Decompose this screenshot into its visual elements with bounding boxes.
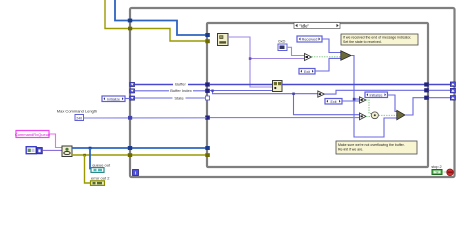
wire to error out indicator [85, 155, 91, 183]
select function U3 [341, 51, 351, 60]
wire stop to conditional terminal [442, 171, 447, 173]
wire state output [405, 98, 426, 115]
shift register right state [450, 96, 455, 101]
replace array subset U5 [273, 81, 283, 92]
wire queue refnum [42, 149, 62, 151]
iteration terminal [133, 170, 139, 176]
svg-text:Initialize: Initialize [107, 97, 120, 101]
label queue out [92, 163, 111, 168]
comment box 2 [336, 141, 417, 154]
svg-text:CommandRxQueue: CommandRxQueue [15, 132, 51, 137]
enum constant Exit (lower) [325, 99, 342, 105]
or gate U8 [371, 112, 378, 119]
enum constant Exit (top) [299, 69, 315, 75]
tunnel error case border bottom [205, 153, 210, 157]
constant 0xD [278, 38, 305, 55]
svg-text:Exit: Exit [304, 70, 310, 74]
wire boolean to or [366, 115, 372, 117]
tunnel buffer case right [424, 82, 429, 86]
svg-text:Max Command Length: Max Command Length [57, 109, 97, 114]
svg-text:0xD: 0xD [278, 38, 285, 43]
shift register left buffer [130, 82, 135, 86]
svg-text:TF: TF [435, 170, 439, 174]
shift register right buffer index [450, 88, 455, 93]
conditional terminal stop sign [447, 169, 454, 176]
tunnel max command length loop border [128, 116, 132, 120]
comparison GreaterOrEqual? U7 [360, 113, 367, 120]
tunnel max command length case left [205, 116, 210, 120]
case selector label [294, 23, 340, 29]
svg-text:Make sure we're not overflowin: Make sure we're not overflowing the buff… [338, 143, 405, 147]
wire dequeued element (string) [228, 37, 305, 87]
dequeue element VI U1 [218, 34, 229, 46]
shift register left buffer index [130, 89, 135, 93]
shift register right buffer [450, 82, 455, 87]
wire queue from top [115, 0, 207, 35]
tunnel queue on case border [205, 33, 210, 37]
select function U9 [397, 110, 405, 120]
svg-text:Set the state to received.: Set the state to received. [343, 40, 382, 44]
tunnel error loop border bottom [128, 153, 132, 157]
wire max command length [84, 117, 207, 119]
wire state to right shift register [429, 97, 451, 99]
indicator queue out [91, 168, 104, 173]
wire error cluster from top [105, 0, 207, 41]
svg-text:Buffer: Buffer [175, 82, 186, 87]
svg-text:State: State [174, 95, 184, 100]
tunnel buffer index case right [424, 88, 429, 92]
comment box 1 [341, 34, 418, 45]
svg-text:stop 2: stop 2 [431, 165, 441, 169]
tunnel error on while loop border [128, 27, 132, 31]
wire or to select s [379, 114, 397, 116]
comparison Equal? U4 [360, 97, 367, 103]
obtain queue VI U10 [62, 146, 72, 157]
indicator error out 2 [91, 181, 105, 186]
svg-text:Exit: Exit [331, 100, 337, 104]
svg-text:"Idle": "Idle" [300, 23, 310, 28]
comparison Equal? U2 [305, 54, 312, 61]
wire queue out main [72, 147, 207, 150]
wire state left [135, 95, 207, 100]
enum constant Initialize (left) [102, 96, 130, 102]
svg-text:Buffer Index: Buffer Index [170, 88, 192, 93]
svg-text:Initialize: Initialize [370, 93, 383, 97]
enum constant Initialize (case) [365, 92, 388, 98]
tunnel state case right [424, 96, 429, 100]
tunnel buffer case left [205, 82, 210, 86]
control queue refnum [26, 147, 42, 154]
wire max command length inside case [210, 117, 360, 119]
tunnel state case left hollow [205, 96, 209, 100]
wire buffer index inside case [210, 90, 360, 115]
string constant CommandRxQueue [15, 131, 51, 138]
tunnel buffer index case left [205, 89, 210, 93]
svg-text:error out 2: error out 2 [91, 176, 110, 181]
enum constant Received [297, 36, 322, 42]
tunnel queue loop border bottom [128, 146, 132, 150]
wire buffer left [135, 82, 207, 87]
wire queue name [49, 134, 62, 148]
tunnel queue case border bottom [205, 146, 210, 150]
wire buffer to right shift register [429, 84, 451, 86]
case structure [207, 23, 428, 167]
wire boolean equal to select s [312, 56, 341, 58]
wire buffer index to right shift register [429, 89, 451, 91]
wire Exit to select f [315, 58, 341, 71]
wire buffer index left [135, 88, 207, 93]
svg-text:i: i [135, 171, 136, 176]
label max command length [57, 109, 97, 114]
wire error out main [72, 154, 207, 157]
increment U6 [318, 91, 325, 97]
while loop [130, 8, 455, 177]
wire buffer inside case [210, 84, 273, 86]
tunnel queue on while loop border [128, 19, 132, 23]
wire boolean to or gate [366, 100, 372, 114]
constant max command length [75, 115, 84, 121]
wire initialize to select t [388, 95, 397, 112]
wire Received to select t [322, 39, 341, 53]
wire to queue out indicator [90, 148, 91, 169]
wire buffer output [282, 84, 426, 86]
label stop 2 [431, 165, 441, 169]
tunnel error on case border [205, 39, 210, 43]
svg-text:240: 240 [76, 116, 82, 120]
terminal stop 2 [432, 170, 442, 175]
label error out 2 [91, 176, 110, 181]
svg-text:queue out: queue out [92, 163, 111, 168]
svg-text:Received: Received [302, 38, 318, 42]
wire select output new state [351, 56, 397, 138]
wire incremented index [325, 90, 426, 94]
svg-text:Re-init if we are.: Re-init if we are. [338, 148, 363, 152]
svg-text:If we received the end of mess: If we received the end of message indica… [343, 36, 411, 40]
wire Exit lower to equal [342, 100, 360, 102]
shift register left state [130, 96, 135, 100]
